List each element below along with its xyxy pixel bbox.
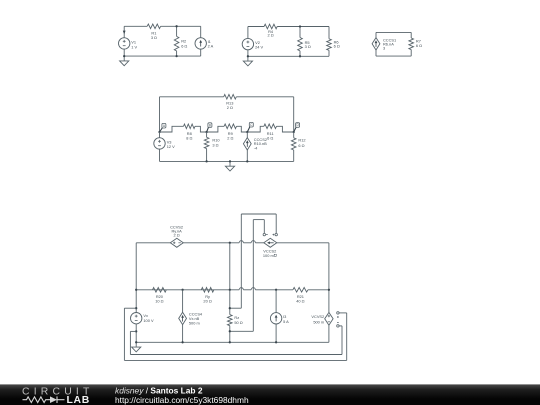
circuit2 wire top-left segment: [248, 26, 264, 28]
wire CCVS2 to junction with hops: [183, 242, 239, 244]
dependent source VCVS2: [325, 312, 333, 325]
wire VCCS2 to right corner: [277, 242, 329, 244]
junction dot R2 bottom: [175, 55, 177, 57]
junction dot Rz top: [229, 307, 231, 309]
junction dot row CCCS4: [181, 289, 183, 291]
svg-text:24 V: 24 V: [255, 44, 263, 49]
resistor R7: [409, 38, 414, 50]
wire right column from top loop: [293, 97, 295, 132]
junction dot R5 top: [299, 25, 301, 27]
svg-text:3 Ω: 3 Ω: [151, 35, 157, 40]
junction dot node D: [293, 131, 295, 133]
current source I3: [270, 313, 281, 324]
wire R8 to B: [195, 126, 224, 132]
svg-text:2 Ω: 2 Ω: [227, 135, 233, 140]
dependent source CCVS2: [170, 238, 183, 247]
wire I1 bottom lead: [200, 49, 202, 56]
wire top-right segment circuit1: [161, 25, 201, 27]
junction dot row Rz: [229, 289, 231, 291]
wire V3 top lead: [159, 132, 161, 138]
resistor R1: [147, 24, 160, 29]
wire below V2: [247, 50, 249, 57]
VCVS2 minus control terminal: [337, 321, 339, 323]
wire row A to R8 jog: [160, 126, 184, 132]
current source I1: [195, 38, 206, 49]
svg-text:100 V: 100 V: [143, 318, 154, 323]
svg-text:3: 3: [383, 46, 385, 51]
circuit 1: wire top-left segment: [124, 25, 147, 27]
junction dot node C: [246, 131, 248, 133]
wire CCCS2 top lead: [246, 132, 248, 138]
svg-text:3 Ω: 3 Ω: [305, 44, 311, 49]
wire R10 top lead: [206, 132, 208, 137]
svg-text:B: B: [209, 123, 211, 127]
wire R11 to D: [277, 126, 294, 132]
wire VCCS2 minus stub: [263, 220, 265, 234]
wire VCVS2 minus stub: [339, 325, 342, 327]
svg-text:500 m: 500 m: [189, 321, 200, 326]
junction dot node B: [205, 131, 207, 133]
wire inner right vertical: [341, 326, 343, 355]
resistor R4: [264, 24, 277, 29]
wire CCCS4 bottom lead: [182, 325, 184, 343]
ground circuit2: [247, 56, 249, 61]
wire CCCS4 top lead: [182, 290, 184, 312]
wire R7 top lead: [410, 32, 412, 38]
wire I3 bottom lead: [275, 324, 277, 342]
wire bottom circuit1: [124, 55, 201, 57]
VCCS2 plus control terminal: [273, 234, 275, 236]
dependent source CCCS4: [179, 312, 187, 324]
junction dot CCCS2 bottom: [246, 160, 248, 162]
junction dot top wire: [229, 242, 231, 244]
wire bottom mid circuit: [160, 160, 294, 162]
svg-text:8 Ω: 8 Ω: [186, 135, 192, 140]
node A flag: [160, 127, 163, 132]
junction dot Vx plus node: [135, 307, 137, 309]
wire inner hook top: [253, 219, 264, 221]
wire R6 bottom lead: [328, 50, 330, 56]
junction dot row left: [135, 289, 137, 291]
svg-text:20 Ω: 20 Ω: [203, 299, 211, 304]
VCVS2 plus control terminal: [337, 312, 339, 314]
wire top loop left segment: [160, 96, 224, 98]
node D flag: [294, 127, 297, 132]
resistor R21: [293, 288, 308, 293]
junction dot ground mid: [229, 160, 231, 162]
resistor Rz: [228, 315, 233, 326]
wire left column above V1: [123, 26, 125, 37]
svg-text:12 V: 12 V: [167, 144, 175, 149]
wire bottom circuit2: [248, 55, 329, 57]
junction dot Vx minus node: [135, 330, 137, 332]
wire Rz top lead: [229, 290, 231, 315]
wire R5 bottom lead: [299, 51, 301, 56]
resistor R11: [264, 124, 277, 129]
svg-text:40 Ω: 40 Ω: [296, 299, 304, 304]
ground mid circuit: [229, 161, 231, 166]
wire left column above V2: [247, 27, 249, 39]
wire outer right vertical: [346, 313, 348, 361]
polarity arrow on V1 lead: [123, 31, 126, 35]
wire R7 bottom lead: [410, 50, 412, 57]
resistor R12: [291, 138, 296, 150]
svg-text:2 Ω: 2 Ω: [227, 105, 233, 110]
logo resistor zigzag: [23, 397, 51, 403]
wire I3 top lead: [275, 290, 277, 313]
wire inner left vertical: [129, 331, 131, 354]
wire top junction down to row: [229, 243, 231, 290]
logo diode: [50, 396, 57, 403]
voltage source V3: [154, 138, 165, 149]
svg-text:2 Ω: 2 Ω: [174, 232, 180, 237]
wire R2 top lead: [176, 26, 178, 36]
wire top loop right segment: [236, 96, 293, 98]
junction dot R5 bottom: [299, 55, 301, 57]
wire bottom main: [136, 341, 329, 343]
svg-text:500 m: 500 m: [313, 319, 324, 324]
wire outer bottom hook: [124, 359, 346, 361]
junction dot bottom Rz: [229, 341, 231, 343]
svg-text:6 Ω: 6 Ω: [416, 43, 422, 48]
voltage source V2: [242, 38, 253, 49]
svg-text:kdisney / Santos Lab 2: kdisney / Santos Lab 2: [115, 385, 203, 395]
junction dot R2 top: [175, 25, 177, 27]
junction dot bottom CCCS4: [181, 341, 183, 343]
wire left column to top loop: [159, 97, 161, 132]
wire R12 top lead: [293, 132, 295, 138]
svg-text:100 m℧: 100 m℧: [263, 253, 277, 258]
wire outer left vertical: [123, 308, 125, 360]
wire Rz bottom lead: [229, 326, 231, 343]
wire VCCS2 plus stub: [275, 214, 277, 233]
wire inner hook vertical: [252, 220, 254, 332]
svg-text:1 V: 1 V: [131, 44, 137, 49]
wire right column top: [328, 243, 330, 313]
junction dot row right: [328, 289, 330, 291]
svg-text:10 Ω: 10 Ω: [155, 299, 163, 304]
node C flag: [247, 126, 250, 132]
resistor R9: [224, 124, 236, 129]
ground bottom circuit: [135, 342, 137, 347]
wire CCCS2 bottom lead: [246, 150, 248, 161]
circuit3 wire bottom: [376, 55, 411, 57]
voltage source Vx: [131, 313, 142, 324]
junction dot node A: [158, 131, 160, 133]
junction dot ground c1: [123, 55, 125, 57]
wire R9 to C: [237, 126, 264, 132]
circuit2 wire top-right segment: [277, 26, 329, 28]
junction dot bottom I3: [275, 341, 277, 343]
junction dot row I3: [275, 289, 277, 291]
wire VCVS2 bottom lead: [328, 325, 330, 342]
wire below Vx: [135, 324, 137, 342]
resistor R13: [224, 95, 237, 100]
wire outer hook to Vx plus: [124, 307, 136, 309]
svg-text:3 Ω: 3 Ω: [212, 142, 218, 147]
svg-text:LAB: LAB: [67, 395, 90, 405]
svg-text:R12: R12: [298, 137, 305, 142]
wire hook to Rz bottom: [230, 330, 254, 332]
wire R2 bottom lead: [176, 51, 178, 56]
wire below V1: [123, 49, 125, 56]
svg-text:2 A: 2 A: [208, 44, 214, 49]
voltage source V1: [119, 38, 130, 49]
svg-text:6 Ω: 6 Ω: [267, 135, 273, 140]
dependent source VCCS2: [264, 238, 277, 247]
wire top left to CCVS2: [136, 242, 170, 244]
wire outer hook vertical: [240, 214, 242, 308]
resistor R6: [327, 39, 332, 51]
wire CCCS1 top lead: [375, 32, 377, 37]
wire R12 bottom lead: [293, 150, 295, 161]
wire left column: [135, 243, 137, 313]
wire inner hook to Vx minus: [130, 330, 136, 332]
wire I1 top lead: [200, 26, 202, 37]
svg-text:6 Ω: 6 Ω: [181, 44, 187, 49]
junction dot ground c2: [247, 55, 249, 57]
svg-text:6 Ω: 6 Ω: [334, 44, 340, 49]
wire VCVS2 plus stub: [339, 312, 347, 314]
dependent source CCCS1: [372, 38, 380, 50]
svg-text:50 Ω: 50 Ω: [234, 320, 242, 325]
junction dot R10 bottom: [205, 160, 207, 162]
svg-text:Vx: Vx: [143, 313, 148, 318]
resistor R5: [298, 38, 303, 51]
wire outer hook top: [241, 213, 276, 215]
resistor Ry: [201, 288, 214, 293]
wire R10 bottom lead: [206, 149, 208, 162]
node B flag: [207, 127, 209, 132]
wire hook to Rz top: [230, 307, 242, 309]
wire V3 bottom lead: [159, 149, 161, 161]
resistor R2: [174, 36, 179, 51]
junction dot Rz bottom: [229, 330, 231, 332]
ground circuit1: [123, 56, 125, 61]
svg-text:5 A: 5 A: [283, 319, 289, 324]
wire CCCS1 bottom lead: [375, 50, 377, 56]
circuit3 wire top: [376, 31, 411, 33]
wire R5 top lead: [299, 27, 301, 38]
VCCS2 minus control terminal: [263, 233, 265, 235]
svg-text:2 Ω: 2 Ω: [268, 33, 274, 38]
resistor R20: [153, 288, 167, 293]
wire inner bottom hook: [130, 354, 342, 356]
row wire with hops: [136, 289, 239, 291]
wire row to right column: [308, 289, 329, 291]
junction dot bottom left: [135, 341, 137, 343]
svg-text:http://circuitlab.com/c5y3kt69: http://circuitlab.com/c5y3kt698dhmh: [115, 395, 249, 405]
dependent source CCCS2: [243, 138, 251, 150]
resistor R8: [184, 124, 196, 129]
resistor R10: [204, 137, 209, 148]
wire R6 top lead: [328, 27, 330, 39]
svg-text:6 Ω: 6 Ω: [298, 143, 304, 148]
